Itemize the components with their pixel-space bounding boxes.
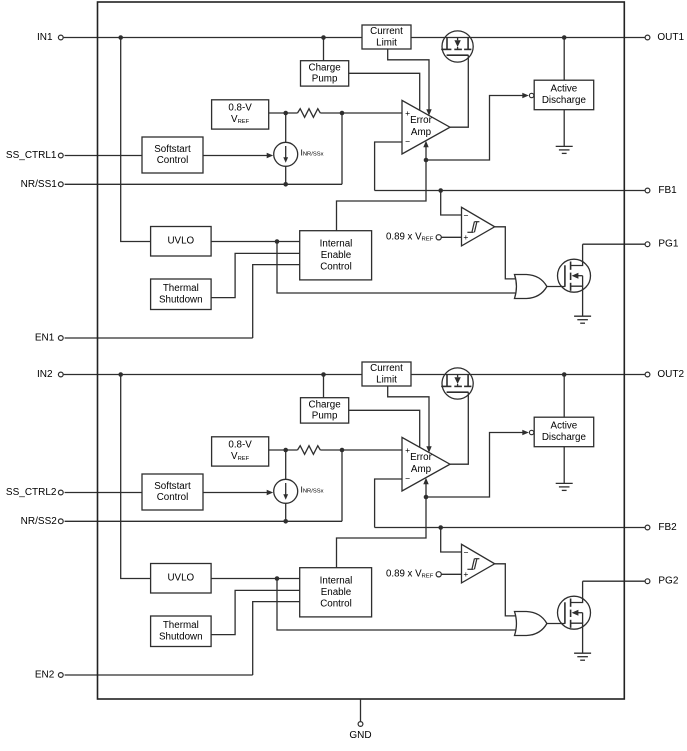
svg-text:Internal: Internal (320, 576, 353, 587)
svg-text:EN1: EN1 (35, 333, 55, 344)
svg-text:Active: Active (551, 421, 578, 432)
svg-text:Control: Control (320, 598, 352, 609)
svg-text:+: + (405, 108, 410, 118)
svg-text:IN2: IN2 (37, 369, 53, 380)
svg-text:Pump: Pump (312, 74, 338, 85)
svg-text:Charge: Charge (309, 62, 342, 73)
svg-text:UVLO: UVLO (167, 573, 194, 584)
svg-text:UVLO: UVLO (167, 236, 194, 247)
svg-text:Control: Control (157, 155, 189, 166)
svg-text:Shutdown: Shutdown (159, 632, 203, 643)
svg-text:Shutdown: Shutdown (159, 295, 203, 306)
svg-text:−: − (464, 211, 469, 221)
svg-text:PG1: PG1 (658, 239, 678, 250)
svg-text:IN1: IN1 (37, 32, 53, 43)
svg-text:Error: Error (410, 452, 433, 463)
svg-text:+: + (405, 445, 410, 455)
svg-text:GND: GND (349, 730, 371, 741)
svg-text:SS_CTRL1: SS_CTRL1 (6, 150, 57, 161)
svg-text:NR/SS1: NR/SS1 (21, 179, 58, 190)
svg-text:Discharge: Discharge (542, 432, 587, 443)
svg-text:Thermal: Thermal (163, 283, 199, 294)
svg-text:Amp: Amp (411, 127, 432, 138)
svg-text:Limit: Limit (376, 38, 397, 49)
svg-text:NR/SS2: NR/SS2 (21, 516, 58, 527)
svg-text:PG2: PG2 (658, 576, 678, 587)
svg-text:SS_CTRL2: SS_CTRL2 (6, 487, 57, 498)
svg-text:FB1: FB1 (658, 185, 677, 196)
svg-text:Active: Active (551, 84, 578, 95)
svg-text:Amp: Amp (411, 464, 432, 475)
svg-text:0.8-V: 0.8-V (228, 102, 252, 113)
svg-text:Control: Control (157, 492, 189, 503)
svg-text:OUT2: OUT2 (657, 369, 684, 380)
svg-text:0.8-V: 0.8-V (228, 439, 252, 450)
svg-text:+: + (463, 232, 468, 242)
svg-text:OUT1: OUT1 (657, 32, 684, 43)
svg-text:Enable: Enable (321, 250, 352, 261)
svg-text:Current: Current (370, 26, 403, 37)
svg-text:Charge: Charge (309, 399, 342, 410)
svg-text:Control: Control (320, 261, 352, 272)
svg-text:Discharge: Discharge (542, 95, 587, 106)
svg-text:+: + (463, 569, 468, 579)
svg-text:Error: Error (410, 115, 433, 126)
svg-text:Limit: Limit (376, 375, 397, 386)
svg-text:−: − (464, 548, 469, 558)
svg-text:Softstart: Softstart (154, 144, 191, 155)
svg-text:Enable: Enable (321, 587, 352, 598)
svg-text:Softstart: Softstart (154, 481, 191, 492)
svg-text:−: − (405, 137, 410, 147)
svg-text:FB2: FB2 (658, 522, 677, 533)
svg-text:EN2: EN2 (35, 670, 55, 681)
svg-text:Internal: Internal (320, 239, 353, 250)
svg-text:Pump: Pump (312, 411, 338, 422)
svg-text:−: − (405, 474, 410, 484)
svg-text:Thermal: Thermal (163, 620, 199, 631)
svg-text:Current: Current (370, 363, 403, 374)
